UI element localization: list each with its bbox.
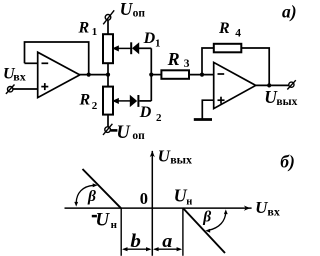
- op-amp U2: [214, 62, 256, 108]
- junction output node: [267, 83, 271, 87]
- svg-text:1: 1: [155, 38, 161, 50]
- label R3: [167, 49, 190, 70]
- junction bridge-R3 node: [149, 73, 153, 77]
- resistor R3: [161, 70, 189, 79]
- label R1: [78, 19, 98, 38]
- op-amp U1: [38, 52, 80, 97]
- label -Un: [92, 209, 118, 231]
- svg-text:1: 1: [92, 26, 98, 38]
- arc beta right: [205, 209, 228, 232]
- line right transfer segment: [183, 208, 225, 253]
- svg-text:вх: вх: [267, 205, 279, 219]
- svg-text:β: β: [87, 188, 96, 205]
- resistor R4: [214, 44, 242, 53]
- label Uvyx axis: [158, 147, 192, 167]
- label D1: [143, 30, 161, 50]
- resistor R1 (potentiometer): [103, 34, 113, 63]
- wire R3 to U2: [189, 74, 214, 76]
- label -Uop: [111, 123, 146, 143]
- junction R4 tap node: [200, 73, 204, 77]
- svg-text:U: U: [158, 147, 171, 166]
- wire Uop to R1: [107, 20, 109, 34]
- svg-text:D: D: [143, 30, 156, 47]
- label D2: [139, 104, 162, 124]
- label Uvyx: [264, 87, 297, 108]
- terminal Uvx input: [6, 85, 15, 94]
- wire U2 noninverting to ground: [202, 100, 213, 119]
- svg-text:b: b: [130, 231, 141, 252]
- junction feedback node: [87, 73, 91, 77]
- svg-text:U: U: [116, 123, 131, 143]
- wire U1 noninverting input: [13, 88, 38, 90]
- svg-text:a: a: [162, 231, 173, 252]
- wire R4 right branch: [241, 48, 269, 85]
- svg-text:вх: вх: [13, 70, 25, 84]
- resistor R2 (potentiometer): [103, 87, 113, 115]
- terminal Uvyx output: [287, 80, 296, 89]
- label Uop: [120, 0, 146, 20]
- svg-text:R: R: [218, 20, 230, 37]
- wire U1 feedback loop: [25, 42, 89, 75]
- wire U1 output: [79, 74, 108, 76]
- wire U2 output: [255, 84, 289, 86]
- svg-text:н: н: [186, 197, 192, 208]
- svg-text:D: D: [139, 104, 152, 121]
- axis Uvx horizontal: [65, 206, 252, 211]
- label Uvx: [3, 66, 26, 84]
- svg-text:4: 4: [235, 27, 241, 39]
- svg-text:б): б): [280, 152, 295, 172]
- svg-text:U: U: [95, 209, 110, 230]
- wiper arrow R1: [114, 47, 130, 51]
- svg-text:0: 0: [140, 189, 148, 208]
- terminal -Uop: [103, 124, 112, 135]
- wire guide at Un: [182, 208, 184, 256]
- wire D2 to bridge: [139, 100, 151, 102]
- svg-text:3: 3: [184, 58, 190, 70]
- wire R4 left branch: [202, 48, 214, 75]
- arrow a interval: [153, 247, 182, 251]
- diode D2: [130, 95, 140, 107]
- wire guide at -Un: [120, 208, 122, 256]
- svg-text:R: R: [79, 92, 91, 109]
- wire R2 to -Uop: [107, 115, 109, 127]
- svg-text:2: 2: [156, 112, 162, 124]
- svg-text:R: R: [78, 19, 90, 36]
- label Uvx axis: [255, 198, 280, 219]
- wire D1 to bridge: [139, 47, 151, 49]
- diode D1: [130, 42, 139, 54]
- svg-text:R: R: [167, 49, 180, 69]
- label Un: [174, 186, 193, 208]
- arc beta left: [74, 183, 97, 206]
- axis Uvyx vertical: [150, 151, 155, 256]
- wiper arrow R2: [114, 99, 130, 103]
- ground: [194, 118, 212, 121]
- svg-text:а): а): [282, 2, 297, 22]
- arrow b interval: [122, 247, 152, 251]
- wire bridge vertical: [150, 48, 152, 101]
- svg-text:2: 2: [92, 100, 98, 112]
- line left transfer segment: [83, 169, 122, 208]
- wire bridge to R3: [151, 74, 161, 76]
- label R2: [79, 92, 98, 112]
- wire R1 to node: [107, 63, 109, 74]
- svg-text:U: U: [120, 0, 134, 19]
- svg-text:оп: оп: [133, 8, 146, 20]
- junction R1-R2 node: [106, 73, 110, 77]
- svg-text:вых: вых: [170, 153, 192, 167]
- wire node to R2: [107, 75, 109, 87]
- label R4: [218, 20, 241, 39]
- terminal +Uop: [103, 10, 114, 24]
- svg-text:н: н: [111, 219, 118, 231]
- svg-text:оп: оп: [132, 130, 145, 142]
- svg-text:β: β: [202, 209, 211, 226]
- svg-text:вых: вых: [276, 96, 297, 108]
- svg-text:U: U: [255, 198, 268, 217]
- wire U1 inverting input: [25, 62, 39, 64]
